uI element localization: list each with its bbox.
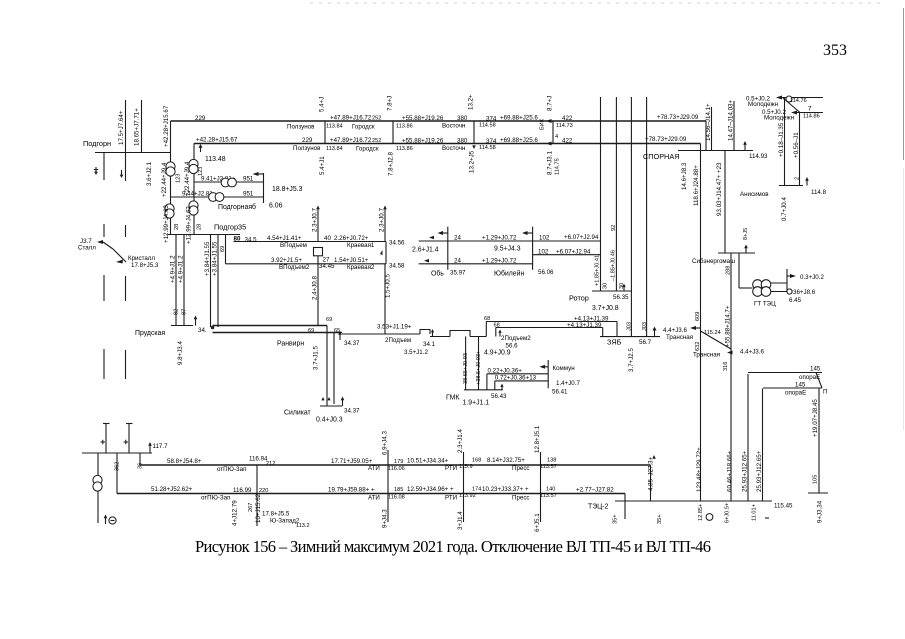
svg-text:19.79+J59.88+ +: 19.79+J59.88+ + (328, 487, 375, 494)
svg-text:+69.88+J25.6: +69.88+J25.6 (500, 137, 538, 144)
svg-text:5.4+J: 5.4+J (319, 97, 326, 112)
svg-text:Коммун: Коммун (553, 365, 575, 372)
stub 2.3+J0.7 right (379, 206, 387, 242)
svg-text:24: 24 (454, 235, 461, 242)
wire Молодежн 1 (746, 96, 823, 109)
svg-text:РТИ: РТИ (445, 465, 457, 472)
svg-text:0.4+J0.3: 0.4+J0.3 (316, 417, 343, 424)
svg-text:+2.77–J27.82: +2.77–J27.82 (576, 487, 614, 494)
feeder +4.9+J1.2 b (178, 235, 185, 326)
svg-text:114.75: 114.75 (555, 158, 561, 175)
svg-text:374: 374 (486, 138, 497, 145)
svg-text:ВПодъем: ВПодъем (280, 242, 307, 249)
svg-text:56.7: 56.7 (639, 339, 652, 346)
svg-text:252: 252 (372, 116, 381, 122)
svg-text:113.48: 113.48 (205, 156, 226, 163)
svg-text:+4.9+J1.2: +4.9+J1.2 (178, 255, 185, 283)
bus Подгорн (83, 139, 171, 153)
dashed feeder x125 (125, 225, 127, 379)
svg-text:РТИ: РТИ (445, 495, 457, 502)
node Трансная 2 (693, 349, 764, 359)
trunk wire upper y325.5 (213, 317, 341, 334)
svg-text:114.58: 114.58 (479, 145, 496, 151)
svg-text:Краевая2: Краевая2 (347, 264, 375, 271)
svg-text:1.9+J1.1: 1.9+J1.1 (463, 400, 490, 407)
svg-text:68: 68 (494, 323, 500, 329)
svg-text:отПЮ-Зап: отПЮ-Зап (201, 495, 230, 502)
svg-text:35+: 35+ (613, 515, 619, 525)
branch Трансная diagonal (701, 331, 732, 349)
circuit line 2 y143.5 (194, 143, 701, 145)
svg-text:3+J1.4: 3+J1.4 (457, 511, 464, 530)
wire 9.41+J2.81 (194, 176, 264, 183)
arrows into Силикат (321, 397, 344, 407)
tie 14.56-J14.1 (705, 103, 712, 151)
svg-text:4.9+J0.9: 4.9+J0.9 (484, 350, 511, 357)
svg-text:68: 68 (484, 316, 490, 322)
svg-text:П: П (823, 389, 827, 396)
svg-text:36: 36 (138, 463, 144, 469)
riser ГМК b (476, 337, 482, 390)
svg-text:ГТ ТЭЦ: ГТ ТЭЦ (754, 301, 776, 308)
svg-text:8.7+J3.1: 8.7+J3.1 (547, 151, 554, 175)
svg-text:1.54+J0.51+: 1.54+J0.51+ (334, 257, 369, 264)
wires ГТ ТЭЦ out (771, 269, 825, 292)
svg-text:113.86: 113.86 (396, 146, 413, 152)
disconnector box (314, 248, 323, 256)
svg-text:2.4+J0.8: 2.4+J0.8 (312, 276, 319, 300)
svg-text:0.22+J0.36+: 0.22+J0.36+ (488, 368, 523, 375)
svg-text:12.8+J5.1: 12.8+J5.1 (534, 425, 541, 453)
svg-text:3.7+J1.5: 3.7+J1.5 (313, 346, 320, 370)
svg-text:10.51+J34.34+: 10.51+J34.34+ (407, 458, 449, 465)
svg-text:36+J8.6: 36+J8.6 (793, 289, 816, 296)
svg-text:3.7+J0.8: 3.7+J0.8 (592, 305, 619, 312)
bus 117.7 (82, 442, 168, 453)
svg-text:+6.07+J2.94: +6.07+J2.94 (556, 249, 591, 256)
svg-text:+55.88+J19.26: +55.88+J19.26 (402, 115, 444, 122)
svg-text:69: 69 (220, 246, 226, 252)
svg-text:28: 28 (174, 224, 180, 230)
svg-text:+78.73+J29.09: +78.73+J29.09 (657, 114, 699, 121)
wire 2.4+J0.8 down (312, 256, 319, 326)
wire 1.5+J0.5 down (385, 264, 392, 334)
wire Коммун lower (495, 375, 548, 390)
svg-text:6.9+J4.3: 6.9+J4.3 (382, 431, 389, 455)
svg-text:113.84: 113.84 (326, 146, 343, 152)
svg-text:18.65+J7.71+: 18.65+J7.71+ (134, 108, 141, 146)
tie Юбилейн (522, 227, 533, 270)
svg-text:отПЮ-Зап: отПЮ-Зап (217, 466, 246, 473)
tie wire 8.7 БИК (547, 96, 561, 175)
svg-text:14.47–J14.03+: 14.47–J14.03+ (728, 99, 735, 141)
svg-text:951: 951 (243, 191, 254, 198)
svg-text:93.03+J14.47+ +23: 93.03+J14.47+ +23 (716, 162, 723, 216)
scan artifact top dashed line (310, 2, 882, 4)
svg-text:115.45: 115.45 (774, 503, 793, 510)
svg-text:5.4+J1: 5.4+J1 (319, 156, 326, 175)
svg-text:Молодежн: Молодежн (764, 115, 794, 122)
svg-text:140: 140 (546, 487, 555, 493)
svg-text:Обь: Обь (431, 270, 444, 278)
wire 102 lower (533, 249, 601, 256)
svg-text:Сталл: Сталл (78, 245, 96, 252)
svg-text:380: 380 (457, 138, 468, 145)
transformer ТЭЦ-3 (93, 453, 102, 523)
bus Сибэнергомаш (692, 228, 755, 275)
svg-text:25.93+J12.65+: 25.93+J12.65+ (756, 450, 763, 492)
riser Спорная B (725, 151, 731, 502)
svg-text:Ползунов: Ползунов (287, 124, 315, 131)
svg-text:34.1: 34.1 (423, 341, 436, 348)
svg-text:10+J15.62: 10+J15.62 (255, 493, 262, 523)
arrow into Прудская (194, 316, 198, 326)
dashed feeder x104 (103, 224, 105, 379)
svg-text:БИК: БИК (540, 118, 546, 130)
svg-text:116.08: 116.08 (388, 495, 405, 501)
svg-text:92: 92 (611, 225, 617, 231)
svg-text:Трансная: Трансная (666, 334, 693, 341)
svg-text:+19.07+J8.45: +19.07+J8.45 (812, 399, 819, 437)
tie АТИ (382, 431, 389, 528)
svg-text:185: 185 (394, 487, 403, 493)
riser Спорная A (700, 144, 702, 502)
labels отПЮ-Зап 2 right (368, 486, 614, 502)
stub below ТЭЦ-2 (613, 501, 664, 524)
long vertical B2 (615, 97, 617, 291)
svg-text:3.5+J1.2: 3.5+J1.2 (404, 349, 428, 356)
wire +0.56-J1 (793, 113, 801, 186)
svg-text:+3.84+J1.55: +3.84+J1.55 (204, 241, 211, 276)
node Коммун (540, 360, 581, 396)
svg-text:12.85+: 12.85+ (698, 504, 704, 521)
svg-text:422: 422 (562, 115, 573, 122)
svg-text:3.6+J2.1: 3.6+J2.1 (146, 162, 153, 186)
svg-text:J03: J03 (627, 322, 633, 331)
svg-text:Ротор: Ротор (569, 294, 589, 303)
svg-text:35.97: 35.97 (450, 270, 466, 277)
svg-text:6.06: 6.06 (269, 203, 283, 210)
svg-text:288: 288 (726, 266, 732, 275)
svg-text:Анисимов: Анисимов (740, 191, 769, 198)
svg-text:6+J0.5+: 6+J0.5+ (725, 503, 731, 523)
tie wire 13.2 (468, 94, 476, 173)
wire ВПодъем2 (226, 257, 406, 272)
line 17.5+J7.64 (118, 100, 126, 181)
svg-text:18.8+J5.3: 18.8+J5.3 (272, 186, 303, 193)
labels отПЮ-Зап 1 left (167, 456, 373, 474)
feeder 19.07 (808, 388, 828, 523)
svg-text:220: 220 (259, 488, 268, 494)
svg-text:12.59+J34.96+ +: 12.59+J34.96+ + (407, 486, 454, 493)
load Кристалл (116, 255, 159, 269)
svg-text:2: 2 (795, 177, 801, 180)
wire Юбилейн lower 24 (419, 257, 533, 264)
svg-text:7: 7 (808, 106, 812, 113)
long vertical B1 (600, 97, 602, 291)
wire опораЕ 1 (748, 366, 822, 389)
node Ранвирн (277, 331, 360, 348)
svg-text:34.37: 34.37 (344, 340, 360, 347)
svg-text:0.7+J0.4: 0.7+J0.4 (781, 197, 788, 221)
svg-text:113.92: 113.92 (459, 493, 476, 499)
generator symbol (104, 515, 116, 525)
svg-text:123.48+J29.72+: 123.48+J29.72+ (696, 447, 703, 492)
circuit отПЮ-Зап 1 (140, 465, 651, 501)
tie Краевая (380, 242, 386, 264)
transformer pair lower right (189, 201, 198, 215)
svg-text:118.6+J24.88+: 118.6+J24.88+ (693, 165, 700, 206)
riser 362 (115, 453, 121, 494)
svg-text:24: 24 (454, 257, 461, 264)
wire +0.18-J1.35 (778, 98, 785, 186)
line1 labels Ползунов block (287, 115, 381, 131)
svg-text:4.4+J3.6: 4.4+J3.6 (740, 349, 764, 356)
svg-text:4.4+J3.6: 4.4+J3.6 (663, 327, 687, 334)
svg-text:Молодежн: Молодежн (748, 101, 778, 108)
svg-text:+4.9+J1.2: +4.9+J1.2 (170, 255, 177, 283)
feeder Силикат a (313, 326, 328, 407)
bus ГМК (446, 384, 507, 407)
line 18.65+J7.71 (134, 100, 142, 153)
long vertical B3 (630, 97, 632, 337)
trunk wire lower y332.5 (213, 332, 343, 334)
svg-text:СПОРНАЯ: СПОРНАЯ (643, 152, 679, 161)
svg-text:+1.29+J0.72: +1.29+J0.72 (482, 235, 517, 242)
svg-text:114.8: 114.8 (811, 189, 827, 196)
label 4.85-J27.3 (648, 455, 656, 491)
svg-text:60.46+J18.66+: 60.46+J18.66+ (727, 450, 734, 492)
svg-text:114.73: 114.73 (556, 123, 573, 129)
svg-text:362: 362 (115, 462, 121, 471)
svg-text:+12.99+J4.63: +12.99+J4.63 (186, 206, 193, 244)
feeder +3.84+J1.55 b (212, 235, 219, 328)
circuit line 1 Ползунов-Городск-Восточн-БИК y121 (171, 121, 707, 151)
svg-text:114.76: 114.76 (790, 98, 807, 104)
svg-text:Трансная: Трансная (693, 352, 720, 359)
svg-text:3.92+J1.5+: 3.92+J1.5+ (271, 257, 302, 264)
svg-text:8.14+J32.75+: 8.14+J32.75+ (487, 457, 525, 464)
wire tick a (101, 424, 107, 454)
wire 9.44+J2.81 (171, 191, 264, 198)
svg-text:9+J3.34: 9+J3.34 (817, 500, 824, 523)
labels отПЮ-Зап 1 right (368, 457, 557, 472)
svg-text:Восточн: Восточн (442, 145, 465, 152)
svg-text:0.72+J0.36+13: 0.72+J0.36+13 (495, 375, 537, 382)
svg-text:56.06: 56.06 (538, 269, 554, 276)
svg-text:+55.88+J19.26: +55.88+J19.26 (402, 138, 444, 145)
svg-text:116.06: 116.06 (388, 466, 405, 472)
transformer pair lower left (165, 204, 174, 218)
svg-text:опораЕ: опораЕ (785, 390, 806, 397)
svg-text:ТЭЦ-2: ТЭЦ-2 (588, 504, 609, 511)
svg-text:17.5+J7.64+: 17.5+J7.64+ (118, 110, 125, 145)
svg-text:17.8+J5.5: 17.8+J5.5 (262, 511, 290, 518)
svg-text:34.5: 34.5 (245, 237, 258, 244)
svg-text:Подгорнаяб: Подгорнаяб (218, 203, 256, 211)
svg-text:Городск: Городск (352, 124, 375, 131)
svg-text:34.58: 34.58 (389, 263, 405, 270)
ticks above ТЭЦ-3 (103, 423, 133, 425)
svg-text:4.54+J1.41+: 4.54+J1.41+ (267, 235, 302, 242)
svg-text:2.3+J1.4: 2.3+J1.4 (457, 429, 464, 453)
svg-text:+47.89+J16.72: +47.89+J16.72 (330, 115, 372, 122)
svg-text:АТИ: АТИ (368, 495, 380, 502)
transformer pair upper left (166, 162, 175, 176)
svg-text:168: 168 (472, 458, 481, 464)
svg-text:+3.84+J1.55: +3.84+J1.55 (212, 241, 219, 276)
svg-text:609: 609 (695, 312, 701, 321)
wire 2Подъем2 inner (494, 322, 603, 337)
riser 36 (138, 453, 144, 469)
wire 2Подъем2 outer (484, 316, 617, 337)
label 82 87 (174, 309, 188, 315)
svg-text:56.6: 56.6 (506, 343, 519, 350)
svg-text:56.41: 56.41 (552, 389, 568, 396)
label Подгорнаяб (218, 203, 283, 212)
svg-text:3.53+J1.19+: 3.53+J1.19+ (377, 324, 412, 331)
svg-text:267: 267 (248, 503, 254, 512)
svg-text:Восточн: Восточн (442, 123, 465, 130)
svg-text:6.45: 6.45 (789, 297, 802, 304)
arrow mark near bus (94, 167, 98, 175)
labels below ТЭЦ-2 (698, 503, 769, 523)
svg-text:105: 105 (813, 475, 819, 484)
svg-text:34.: 34. (198, 327, 207, 334)
svg-text:17.71+J59.05+: 17.71+J59.05+ (331, 458, 373, 465)
svg-text:113.57: 113.57 (540, 464, 557, 470)
wire ВПодъем (234, 235, 406, 249)
svg-text:4.85–J27.3+: 4.85–J27.3+ (648, 456, 655, 491)
feeder 69 to ВПодъем2 (220, 235, 226, 264)
switch bumps 34.1 (420, 329, 486, 348)
tie wire with arrow (253, 172, 264, 203)
svg-text:+55.88+J14.7+: +55.88+J14.7+ (725, 305, 732, 347)
svg-text:116.99: 116.99 (233, 487, 252, 494)
arrow mark on line 125 (120, 170, 124, 178)
svg-text:+0.18–J1.35: +0.18–J1.35 (778, 122, 785, 157)
svg-text:2Подъем2: 2Подъем2 (501, 335, 531, 342)
svg-text:14.6+J8.3: 14.6+J8.3 (681, 162, 688, 190)
svg-text:2.26+J0.72+: 2.26+J0.72+ (334, 235, 369, 242)
svg-text:опораЕ: опораЕ (799, 374, 820, 381)
svg-text:АТИ: АТИ (368, 465, 380, 472)
svg-text:9.8+J3.4: 9.8+J3.4 (177, 341, 184, 365)
svg-text:Сибэнергомаш: Сибэнергомаш (692, 258, 735, 265)
svg-text:113.86: 113.86 (396, 124, 413, 130)
svg-text:Краевая1: Краевая1 (347, 242, 375, 249)
wire Коммун upper (487, 368, 548, 390)
svg-text:Подгорн: Подгорн (83, 139, 111, 148)
svg-text:2Подъем: 2Подъем (385, 337, 411, 344)
svg-text:13.2+: 13.2+ (468, 94, 475, 110)
svg-text:113.2: 113.2 (296, 523, 310, 529)
junction node (211, 326, 215, 330)
svg-text:87: 87 (182, 309, 188, 315)
svg-text:Пресс: Пресс (512, 495, 530, 502)
wire Молодежн 2 (762, 106, 823, 122)
svg-text:40: 40 (324, 235, 331, 242)
wire tick b (124, 424, 130, 454)
svg-text:34.45: 34.45 (319, 263, 335, 270)
wire 2Подъем (342, 324, 428, 357)
svg-text:380: 380 (457, 115, 468, 122)
riser ГМК a (463, 337, 469, 390)
svg-text:30: 30 (603, 283, 609, 289)
svg-text:Ранвирн: Ранвирн (277, 341, 304, 348)
node Трансная 1 (663, 326, 721, 341)
feeder +3.84+J1.55 a (204, 235, 211, 328)
label 2Подъем2 (498, 330, 531, 350)
svg-text:ЗЯБ: ЗЯБ (607, 338, 622, 347)
svg-text:6+J5.1: 6+J5.1 (534, 513, 541, 532)
svg-text:ВПодъем2: ВПодъем2 (279, 264, 310, 271)
feeder +4.9+J1.2 a (170, 235, 177, 326)
riser +42.28+J15.67 left (163, 105, 171, 234)
svg-text:145: 145 (810, 366, 821, 373)
wire stub left of bus (103, 153, 105, 181)
arrow into ЗЯБ (653, 327, 657, 337)
svg-text:+4.13+J1.39: +4.13+J1.39 (567, 322, 602, 329)
svg-text:35+: 35+ (657, 515, 663, 525)
svg-text:13.2+J5: 13.2+J5 (469, 150, 476, 173)
svg-text:1.5+J0.5: 1.5+J0.5 (385, 274, 392, 298)
stub 2.3+J0.7 left (312, 206, 320, 242)
svg-text:11.01+: 11.01+ (752, 504, 758, 521)
svg-text:+78.73+J29.09: +78.73+J29.09 (645, 136, 687, 143)
tie 14.47-J14.03 (728, 99, 735, 150)
svg-text:51.28+J52.62+: 51.28+J52.62+ (151, 486, 193, 493)
svg-text:7.8+J: 7.8+J (387, 96, 394, 111)
svg-text:9.5+J4.3: 9.5+J4.3 (494, 246, 521, 253)
label БИК (540, 118, 573, 130)
bus Анисимов (740, 177, 827, 198)
wire Юбилейн upper 24 (419, 234, 601, 242)
svg-text:114.58: 114.58 (479, 123, 496, 129)
svg-text:212: 212 (266, 461, 275, 467)
feeder Ю-Запад2 (232, 465, 310, 529)
svg-text:1.4+J0.7: 1.4+J0.7 (556, 380, 580, 387)
svg-text:Ползунов: Ползунов (293, 145, 321, 152)
svg-text:+42.28+J15.67: +42.28+J15.67 (196, 137, 238, 144)
svg-text:56.43: 56.43 (491, 393, 507, 400)
svg-text:69: 69 (326, 317, 332, 323)
svg-text:+38.5+J0.93+: +38.5+J0.93+ (476, 351, 482, 385)
svg-text:38.65+J0.93: 38.65+J0.93 (463, 353, 469, 384)
transformer on wire (209, 193, 224, 202)
svg-text:8.7+J: 8.7+J (547, 96, 554, 111)
svg-text:Городск: Городск (356, 146, 379, 153)
svg-text:7.8+J2.8: 7.8+J2.8 (388, 152, 395, 176)
svg-text:34.37: 34.37 (344, 408, 360, 415)
svg-text:9+J4.3: 9+J4.3 (382, 509, 389, 528)
svg-text:0.3+J0.2: 0.3+J0.2 (800, 274, 824, 281)
tie wire 5.4+J1 (319, 97, 327, 175)
labels отПЮ-Зап 2 left (151, 486, 375, 502)
svg-text:174: 174 (472, 487, 481, 493)
svg-text:113.57: 113.57 (540, 493, 557, 499)
svg-text:8+J5: 8+J5 (743, 228, 749, 240)
svg-text:123: 123 (176, 174, 182, 183)
line2 labels Восточн block (396, 134, 573, 152)
feeder 25.93 a (742, 374, 749, 501)
node Сталл J3.7 (78, 238, 126, 262)
svg-text:Кристалл: Кристалл (128, 255, 155, 262)
transformer pair upper right (189, 159, 198, 173)
bus ТЭЦ-2 (588, 501, 793, 511)
svg-text:+12.99+J4.63: +12.99+J4.63 (163, 205, 170, 243)
svg-text:353: 353 (823, 42, 847, 59)
